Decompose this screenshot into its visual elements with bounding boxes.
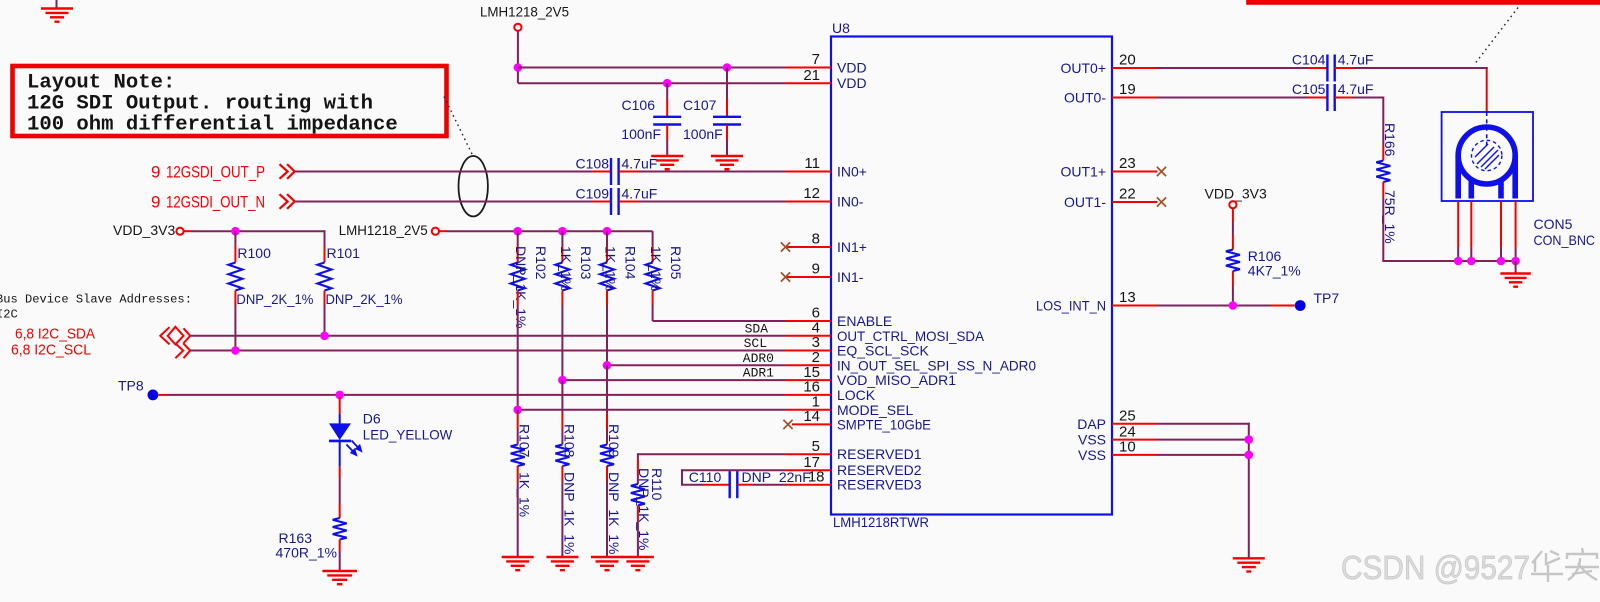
svg-text:4K7_1%: 4K7_1% [1248,263,1301,279]
wire ADR1 to U8 pin 15 [562,379,785,381]
resistor R163 [333,518,347,540]
wire R110 to ground [637,521,639,557]
svg-text:9: 9 [151,163,160,182]
resistor R101 [318,263,332,291]
label CON5 [1534,216,1573,232]
svg-text:4.7uF: 4.7uF [1338,81,1374,97]
svg-text:1K_1%: 1K_1% [517,472,533,517]
pin stub D6 cathode [339,467,341,478]
wire C110 loop left [681,469,683,486]
U8 pin 16 stub (LOCK) [786,394,832,396]
wire R108 column [561,380,563,413]
value CON_BNC [1534,232,1596,248]
power port VDD_3V3 (left) [113,222,175,238]
wire R103 bottom [561,305,563,380]
U8 pin 7 stub (VDD) [786,67,832,69]
wire RESERVED1 to U8 pin 5 [638,453,786,455]
U8 pin 24 stub (VSS) [1112,439,1158,441]
dotted leader to BNC [1474,8,1518,66]
svg-text:C105: C105 [1292,81,1326,97]
layout note text [27,72,398,137]
svg-text:19: 19 [1119,81,1136,98]
pin stub R108 top [561,413,563,429]
svg-text:Layout Note:: Layout Note: [27,72,175,95]
ground (top-left) [56,0,58,8]
wire R110 upper [637,476,639,485]
ground (R109) [591,557,623,570]
pin stub C106 top [666,99,668,117]
connector CON5 barrel circle [1458,127,1515,184]
wire R101 top [324,230,326,246]
pin stub R109 top [606,413,608,429]
wire R105 bottom [652,305,654,321]
U8 pin 25 stub (DAP) [1112,423,1158,425]
svg-text:IN1+: IN1+ [837,239,867,255]
wire 12GSDI_OUT_P to C108 [295,171,592,173]
svg-text:11: 11 [804,155,820,172]
port chevron 12GSDI_OUT_P [280,164,295,179]
net label I2C_SCL [11,341,91,358]
pin stub R107 top [517,413,519,429]
svg-text:DNP_1K_1%: DNP_1K_1% [606,472,622,555]
svg-text:IN1-: IN1- [837,269,864,285]
resistor R109 [600,445,614,467]
svg-text:13: 13 [1119,289,1136,306]
svg-text:TP8: TP8 [118,378,144,394]
wire R100 bottom to SCL [234,305,236,351]
junction C107 column on pin7 rail [723,63,732,72]
power port LMH1218_2V5 (top) [480,4,569,20]
pin stub R110 top [637,459,639,475]
layout note box (top-right, cut off) [1246,0,1600,5]
wire R107 upper [517,429,519,445]
connector CON5 inner contact (hatched) [1472,140,1502,170]
svg-text:25: 25 [1119,408,1136,425]
capacitor C107 [713,117,741,125]
svg-text:C108: C108 [576,156,610,172]
svg-text:VDD: VDD [837,75,867,91]
svg-text:5: 5 [812,438,820,455]
svg-text:LOCK: LOCK [837,387,876,403]
svg-text:100nF: 100nF [683,126,723,142]
svg-text:CON_BNC: CON_BNC [1534,232,1596,248]
svg-text:22: 22 [1119,186,1136,203]
pin stub C109 right [619,201,639,203]
power port VDD_3V3 (right) [1205,186,1267,202]
svg-text:18: 18 [808,468,825,485]
capacitor C108 [611,158,619,185]
pin stub C104 left [1308,67,1328,69]
port chevron 12GSDI_OUT_N [280,194,295,209]
svg-text:OUT0-: OUT0- [1064,90,1106,106]
svg-text:R108: R108 [561,424,577,458]
svg-text:R166: R166 [1382,123,1398,157]
BNC pin 2 stub [1470,201,1472,247]
svg-text:ADR1: ADR1 [743,366,774,381]
svg-text:D6: D6 [363,411,381,427]
layout note box [13,66,447,136]
pin stub R102 bottom [517,291,519,306]
U8 pin 2 stub (IN_OUT_SEL_SPI_SS_N_ADR0) [786,364,832,366]
no-connect X pin 14 [783,420,792,429]
svg-text:9: 9 [151,193,160,212]
pin stub C110 right [737,484,753,486]
resistor R104 [600,263,614,291]
no-connect X pin 23 [1157,167,1166,176]
svg-text:Bus Device Slave Addresses:: Bus Device Slave Addresses: [0,293,192,307]
ground (R107) [502,557,534,570]
dotted leader from note box to ellipse [444,97,473,156]
junction R100 bottom on SCL [231,346,240,355]
port symbol I2C_SDA (bidirectional) [160,327,190,345]
junction at VDD rail pin7 [514,63,523,72]
capacitor C106 [653,117,681,125]
svg-text:21: 21 [803,67,820,84]
wire C104 to BNC center [1353,67,1488,69]
ground (C106) [651,156,683,169]
pin stub C104 right [1335,67,1353,69]
wire OUT0+ to C104 [1158,67,1308,69]
wire D6 to R163 [339,478,341,504]
testpoint TP8 dot [148,390,159,401]
svg-text:SCL: SCL [744,336,767,351]
junction C106 column on pin21 rail [663,79,672,88]
junction R100 top [231,227,240,236]
BNC pin 1 stub [1457,201,1459,247]
pin stub R105 bottom [652,291,654,306]
pin stub R106 top [1232,235,1234,250]
svg-text:DAP: DAP [1077,416,1106,432]
svg-text:DNP_1K_1%: DNP_1K_1% [513,246,529,329]
svg-text:VDD_3V3: VDD_3V3 [113,222,175,238]
watermark CSDN [1341,549,1530,586]
terminal circle LMH1218_2V5 top [514,24,521,31]
U8 pin 8 stub (IN1+) [786,246,832,248]
svg-text:8: 8 [812,231,820,248]
testpoint TP7 label [1314,290,1340,306]
svg-text:CON5: CON5 [1534,216,1573,232]
port symbol I2C_SCL (bidirectional) [175,343,190,358]
pin stub R110 bottom [637,506,639,521]
wire R107 column from MODE_SEL junction [517,410,519,413]
svg-text:IN0+: IN0+ [837,164,867,180]
junction R102 bottom on MODE_SEL [513,406,522,415]
wire DAP to vertical [1158,423,1250,425]
note I2C [0,308,18,322]
wire R166 to BNC ground rail [1382,198,1384,262]
BNC pin 2 wire to rail [1470,247,1472,261]
BNC pin 4 wire to rail [1515,247,1517,261]
wire MODE_SEL to U8 pin 1 [518,409,786,411]
junction VSS pin10 [1245,451,1254,460]
svg-text:MODE_SEL: MODE_SEL [837,402,913,418]
pin stub R166 bottom [1382,182,1384,198]
svg-text:12: 12 [803,185,820,202]
ground (R110) [622,557,654,570]
U8 pin 17 stub (RESERVED2) [786,469,832,471]
svg-text:R100: R100 [237,245,271,261]
pin stub R103 bottom [561,291,563,306]
wire C108 to U8 pin 11 [639,171,786,173]
svg-text:R109: R109 [606,424,622,458]
wire R110 column top [637,453,639,459]
wire C105 to R166 [1353,97,1383,99]
pin stub R104 top [606,246,608,263]
svg-text:R105: R105 [668,246,684,280]
capacitor C109 [611,188,619,215]
svg-text:VSS: VSS [1078,447,1106,463]
junction R104 bottom on ADR0 [603,361,612,370]
junction VSS pin24 [1245,435,1254,444]
U8 pin 6 stub (ENABLE) [786,320,832,322]
svg-text:RESERVED1: RESERVED1 [837,446,922,462]
wire ADR0 to U8 pin 2 [607,364,786,366]
U8 pin 22 stub (OUT1-) [1112,201,1158,203]
svg-text:1K_1%: 1K_1% [648,246,664,291]
svg-text:4.7uF: 4.7uF [1338,52,1374,68]
pin stub R100 top [234,246,236,263]
resistor R108 [555,445,569,467]
wire C110 loop bottom left [682,484,703,486]
wire OUT0- to C105 [1158,97,1308,99]
ground (R163) [322,571,357,584]
no-connect X pin 8 [781,242,790,251]
wire R107 to ground [517,481,519,557]
svg-text:7: 7 [812,51,820,68]
pin stub VDD_3V3 [184,230,192,232]
pin stub C110 left [703,484,730,486]
power port LMH1218_2V5 (mid) [339,222,428,238]
BNC pin 1 wire to rail [1457,247,1459,261]
svg-text:4.7uF: 4.7uF [622,156,658,172]
wire VDD rail to U8 pin 21 [518,82,786,84]
watermark hua-an glyphs [1531,548,1599,582]
junction R104 top [603,227,612,236]
wire R109 upper [606,429,608,445]
ground (R108) [546,557,578,570]
wire VDD_3V3 rail to R100/R101 [192,230,325,232]
no-connect X pin 9 [781,272,790,281]
pin stub R166 top [1382,146,1384,161]
svg-text:R104: R104 [623,246,639,280]
pin stub C107 top [726,99,728,117]
junction R106 on LOS_INT_N [1229,301,1238,310]
wire VSS pin10 [1158,454,1249,456]
U8 pin 1 stub (MODE_SEL) [786,409,832,411]
pin stub R102 top [517,246,519,263]
junction BNC pin 1 [1454,257,1463,266]
svg-text:IN_OUT_SEL_SPI_SS_N_ADR0: IN_OUT_SEL_SPI_SS_N_ADR0 [837,357,1036,373]
svg-text:OUT0+: OUT0+ [1060,60,1106,76]
svg-text:LMH1218RTWR: LMH1218RTWR [833,514,929,530]
wire ENABLE from R105 to U8 pin 6 [653,320,786,322]
pin stub R107 bottom [517,466,519,481]
pin stub C105 left [1308,97,1328,99]
wire R104 bottom [606,305,608,365]
svg-text:R110: R110 [649,468,665,501]
svg-text:VSS: VSS [1078,432,1106,448]
U8 pin 13 stub (LOS_INT_N) [1112,305,1158,307]
junction R101 bottom on SDA [320,332,329,341]
wire R101 bottom to SDA [324,305,326,336]
wire BNC rail to ground [1515,261,1517,273]
svg-text:C104: C104 [1292,52,1326,68]
wire R108 to ground [561,481,563,557]
svg-text:VOD_MISO_ADR1: VOD_MISO_ADR1 [837,372,956,388]
wire LOS_INT_N from U8 pin 13 [1158,305,1271,307]
svg-text:C106: C106 [622,97,656,113]
terminal circle VDD_3V3 [176,228,183,235]
svg-text:U8: U8 [832,20,850,36]
svg-text:R101: R101 [327,245,361,261]
wire TP8 / LOCK to U8 pin 16 [167,394,786,396]
svg-text:1K_1%: 1K_1% [603,246,619,291]
junction D6 on LOCK wire [335,391,344,400]
U8 pin 12 stub (IN0-) [786,201,832,203]
testpoint TP8 label [118,378,144,394]
wire C107 top [726,68,728,100]
terminal circle VDD_3V3 right [1229,201,1236,208]
pin stub TP8 [158,394,167,396]
resistor R110 [631,484,645,506]
U8 pin 14 stub (SMPTE_10GbE) [792,423,831,425]
wire R103 top [561,231,563,246]
U8 pin 18 stub (RESERVED3) [786,484,832,486]
wire 2V5 rail to resistor bank [447,230,653,232]
svg-text:23: 23 [1119,155,1136,172]
LED D6 symbol [329,414,351,467]
capacitor C105 [1327,84,1334,111]
dashed center-pin line inside CON5 [1486,112,1488,146]
resistor R166 [1376,161,1390,183]
LED D6 emission arrows [347,441,362,456]
svg-text:12GSDI_OUT_N: 12GSDI_OUT_N [166,193,265,212]
resistor R105 [646,263,660,291]
pin stub LMH1218_2V5 mid [439,230,447,232]
pin stub TP7 [1270,305,1295,307]
net label 12GSDI_OUT_P [151,163,265,182]
wire VSS vertical [1248,423,1250,558]
svg-text:LMH1218_2V5: LMH1218_2V5 [339,222,428,238]
pin stub R163 bottom [339,540,341,553]
wire R109 to ground [606,481,608,557]
pin stub R104 bottom [606,291,608,306]
svg-text:DNP_2K_1%: DNP_2K_1% [236,291,313,307]
wire C106 to ground [666,140,668,156]
wire R102 top [517,231,519,246]
svg-text:CSDN @9527: CSDN @9527 [1341,549,1530,586]
wire C106 top [666,83,668,99]
capacitor C104 [1327,55,1334,82]
U8 pin 4 stub (OUT_CTRL_MOSI_SDA) [786,335,832,337]
resistor R100 [228,263,242,291]
wire SDA to U8 pin 4 [190,335,785,337]
resistor R107 [511,445,525,467]
pin stub C108 left [592,171,611,173]
wire 12GSDI_OUT_N to C109 [295,201,592,203]
svg-text:470R_1%: 470R_1% [276,544,338,560]
pin stub C106 bottom [666,125,668,140]
ground (BNC) [1500,274,1530,287]
wire VSS pin24 [1158,439,1249,441]
svg-text:1K_1%: 1K_1% [558,246,574,291]
U8 pin 15 stub (VOD_MISO_ADR1) [786,379,832,381]
svg-text:DNP_1K_1%: DNP_1K_1% [561,472,577,555]
svg-text:6,8 I2C_SCL: 6,8 I2C_SCL [11,341,91,358]
svg-text:C107: C107 [683,97,717,113]
wire RESERVED2 loop top [682,469,786,471]
ellipse highlight around differential pair [459,156,488,216]
pin stub R101 bottom [324,291,326,306]
wire R102 bottom [517,305,519,410]
pin stub D6 anode [339,397,341,414]
junction R103 bottom on ADR1 [558,376,567,385]
svg-text:DNP_2K_1%: DNP_2K_1% [326,291,403,307]
pin stub R163 top [339,504,341,518]
svg-text:12G SDI Output. routing with: 12G SDI Output. routing with [27,93,373,116]
svg-text:6,8 I2C_SDA: 6,8 I2C_SDA [15,326,95,343]
junction R103 top [558,227,567,236]
wire R109 column [606,365,608,413]
wire R105 top [652,231,654,246]
svg-text:OUT1+: OUT1+ [1060,164,1106,180]
svg-text:100 ohm differential impedance: 100 ohm differential impedance [27,114,398,137]
svg-text:OUT_CTRL_MOSI_SDA: OUT_CTRL_MOSI_SDA [837,328,985,344]
resistor R103 [555,263,569,291]
U8 pin 10 stub (VSS) [1112,454,1158,456]
pin stub R103 top [561,246,563,263]
svg-text:4.7uF: 4.7uF [622,186,658,202]
U8 pin 21 stub (VDD) [786,82,832,84]
net label I2C_SDA [15,326,95,343]
svg-text:OUT1-: OUT1- [1064,194,1106,210]
junction R102 top [513,227,522,236]
capacitor C110 [730,471,738,498]
wire R100 top [234,231,236,246]
svg-text:VDD_3V3: VDD_3V3 [1205,186,1267,202]
wire R163 to ground [339,552,341,571]
svg-text:12GSDI_OUT_P: 12GSDI_OUT_P [166,163,265,182]
testpoint TP7 dot [1295,300,1306,311]
wire C110 to U8 pin 18 [753,484,786,486]
svg-text:I2C: I2C [0,308,18,322]
wire VDD_3V3 to R106 [1232,222,1234,235]
wire LMH1218_2V5 down to VDD rails [517,31,519,83]
junction BNC pin 4 [1511,257,1520,266]
svg-text:R103: R103 [578,246,594,280]
wire C107 to ground [726,140,728,156]
pin stub R105 top [652,246,654,263]
U8 pin 3 stub (EQ_SCL_SCK) [786,350,832,352]
svg-text:9: 9 [812,261,820,278]
svg-text:SMPTE_10GbE: SMPTE_10GbE [837,416,931,432]
svg-text:C110: C110 [689,469,722,485]
pin stub R109 bottom [606,466,608,481]
BNC pin 4 stub [1515,201,1517,247]
wire BNC center pin drop [1486,67,1488,70]
U8 pin 11 stub (IN0+) [786,171,832,173]
pin stub R106 via port [1232,208,1234,222]
BNC pin 3 wire to rail [1500,247,1502,261]
op-amp U8 body (LMH1218) [831,37,1112,515]
pin stub C107 bottom [726,125,728,140]
wire R106 to LOS_INT_N [1232,286,1234,306]
svg-text:LOS_INT_N: LOS_INT_N [1036,298,1106,314]
U8 pin 19 stub (OUT0-) [1112,97,1158,99]
U8 pin 20 stub (OUT0+) [1112,67,1158,69]
pin stub R101 top [324,246,326,263]
svg-text:SDA: SDA [745,321,769,336]
